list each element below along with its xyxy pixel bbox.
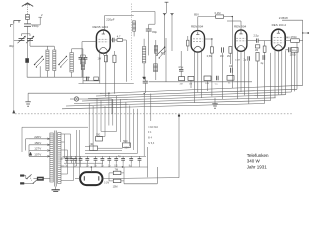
svg-text:3Ω: 3Ω bbox=[90, 144, 93, 146]
svg-text:1M: 1M bbox=[255, 49, 258, 52]
svg-text:4μ: 4μ bbox=[261, 62, 264, 65]
svg-text:5k: 5k bbox=[228, 83, 231, 85]
svg-text:0,1M: 0,1M bbox=[215, 11, 221, 15]
svg-text:3μ: 3μ bbox=[65, 166, 68, 168]
svg-text:1W: 1W bbox=[98, 58, 102, 61]
svg-text:Telefunken: Telefunken bbox=[247, 153, 269, 158]
svg-text:100μ: 100μ bbox=[292, 50, 298, 52]
svg-text:127V: 127V bbox=[34, 147, 41, 151]
svg-text:0,5M: 0,5M bbox=[207, 55, 212, 58]
svg-text:50Ω: 50Ω bbox=[123, 141, 128, 143]
svg-text:REN 904: REN 904 bbox=[191, 25, 204, 29]
svg-text:2μ: 2μ bbox=[94, 166, 97, 168]
svg-text:1M: 1M bbox=[189, 83, 192, 85]
svg-text:2: 2 bbox=[41, 13, 43, 17]
svg-text:IV 6,3: IV 6,3 bbox=[148, 142, 155, 145]
svg-text:2μ: 2μ bbox=[74, 166, 77, 168]
svg-text:2,5μ: 2,5μ bbox=[254, 34, 260, 38]
svg-text:50V: 50V bbox=[125, 146, 130, 149]
svg-text:1μ: 1μ bbox=[108, 166, 111, 168]
svg-text:10H: 10H bbox=[205, 83, 209, 85]
svg-text:2×B/W: 2×B/W bbox=[279, 16, 288, 20]
svg-text:30p: 30p bbox=[9, 44, 14, 48]
svg-text:2M: 2M bbox=[227, 55, 230, 58]
svg-text:III 4: III 4 bbox=[148, 137, 153, 140]
svg-text:2M: 2M bbox=[180, 84, 183, 86]
svg-text:220pF: 220pF bbox=[106, 17, 114, 21]
svg-text:4,7: 4,7 bbox=[117, 35, 121, 39]
svg-text:470Ω: 470Ω bbox=[291, 36, 297, 39]
svg-text:340 W: 340 W bbox=[247, 159, 261, 164]
svg-text:107V: 107V bbox=[34, 153, 41, 157]
svg-text:Jahr 1931: Jahr 1931 bbox=[247, 164, 268, 169]
svg-text:II 4: II 4 bbox=[148, 131, 152, 134]
svg-text:1F: 1F bbox=[60, 159, 63, 161]
svg-text:I 310 310: I 310 310 bbox=[148, 126, 159, 129]
svg-text:80p: 80p bbox=[152, 30, 157, 34]
svg-text:REN5 1204: REN5 1204 bbox=[93, 25, 109, 29]
svg-text:RES 164 d: RES 164 d bbox=[272, 23, 287, 27]
svg-text:Ca: Ca bbox=[215, 83, 219, 85]
svg-text:44V: 44V bbox=[285, 36, 290, 39]
svg-text:8μ: 8μ bbox=[129, 166, 132, 168]
svg-text:10k: 10k bbox=[229, 66, 234, 68]
svg-text:1μ: 1μ bbox=[101, 166, 104, 168]
svg-text:220V: 220V bbox=[34, 135, 41, 139]
svg-text:15M: 15M bbox=[113, 186, 118, 189]
svg-text:7M: 7M bbox=[115, 168, 118, 171]
svg-text:0,2M: 0,2M bbox=[235, 60, 240, 62]
svg-text:1μ: 1μ bbox=[86, 166, 89, 168]
svg-text:0,1M: 0,1M bbox=[104, 182, 109, 184]
svg-text:2μ: 2μ bbox=[244, 58, 247, 61]
svg-text:150V: 150V bbox=[34, 141, 41, 145]
svg-text:85V: 85V bbox=[194, 13, 199, 17]
svg-text:30Ω: 30Ω bbox=[96, 135, 101, 137]
svg-text:220Ω: 220Ω bbox=[290, 54, 296, 57]
svg-text:REN 904: REN 904 bbox=[234, 25, 247, 29]
svg-text:1M: 1M bbox=[220, 55, 223, 58]
svg-text:0,5: 0,5 bbox=[114, 166, 118, 168]
